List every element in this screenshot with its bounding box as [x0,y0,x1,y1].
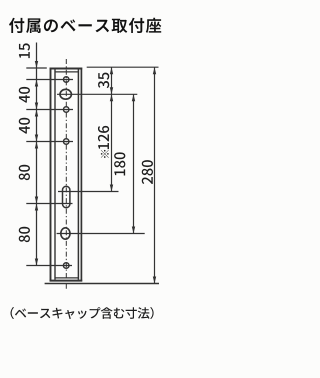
hole H1 center line [57,93,137,95]
dim text 80 (2) [19,227,30,242]
plate inner top line [55,71,78,73]
plate inner bottom line [55,277,78,279]
slot (obround) [63,186,70,207]
dim text 40 (1) [19,87,30,103]
slot upper center line [58,191,119,193]
arrows at H1 [110,87,113,94]
hole H2 (large) [61,228,70,239]
arrow up at hole A [35,80,38,87]
dim text 35 [98,73,109,89]
plate right inner line [77,69,79,280]
arrow down 126 [110,185,113,192]
hole D center line [26,265,72,267]
arrow down 180 [132,227,135,234]
slot lower center line [26,203,72,205]
arrow down 280 [153,277,156,284]
dim line 180 [133,94,135,233]
dim text 40 (2) [19,118,30,134]
hole B center line [26,109,73,111]
plate bottom edge [50,280,83,282]
hole C center line [26,141,73,143]
dim line 280 [154,67,156,283]
dim text 280 [142,160,153,184]
dim line 35/126 [111,67,113,191]
hole A center line [26,79,73,81]
arrow up 35 [110,67,113,74]
arrows at slot lower [35,197,38,204]
dim text ※126 [98,126,109,158]
hole H2 center line [57,233,145,235]
plate top edge [50,67,83,69]
vertical centerline (dash-dot) [65,59,67,290]
base cap bottom line / 280 extension [45,283,159,285]
plate right outer edge [80,68,82,282]
arrow down at top edge [35,61,38,68]
title text 付属のベース取付座 [9,18,161,33]
arrow down at hole D [35,259,38,266]
hole H1 (large) [60,89,71,99]
hole A [63,77,68,82]
arrows at hole C [35,135,38,142]
arrows at hole B [35,103,38,110]
hole B [63,107,68,112]
plate left inner line [54,69,56,280]
top extension line right [87,66,159,68]
arrow up 280 [153,67,156,74]
hole D [63,263,69,269]
plate left outer edge [50,68,52,282]
dim text 180 [114,152,125,175]
hole C [63,139,68,144]
arrow up 180 [132,94,135,101]
dim text 80 (1) [19,165,30,180]
dim text 15 [19,43,30,58]
caption （ベースキャップ含む寸法） [11,307,154,319]
top extension line left [26,67,47,69]
left dimension line [36,43,38,266]
